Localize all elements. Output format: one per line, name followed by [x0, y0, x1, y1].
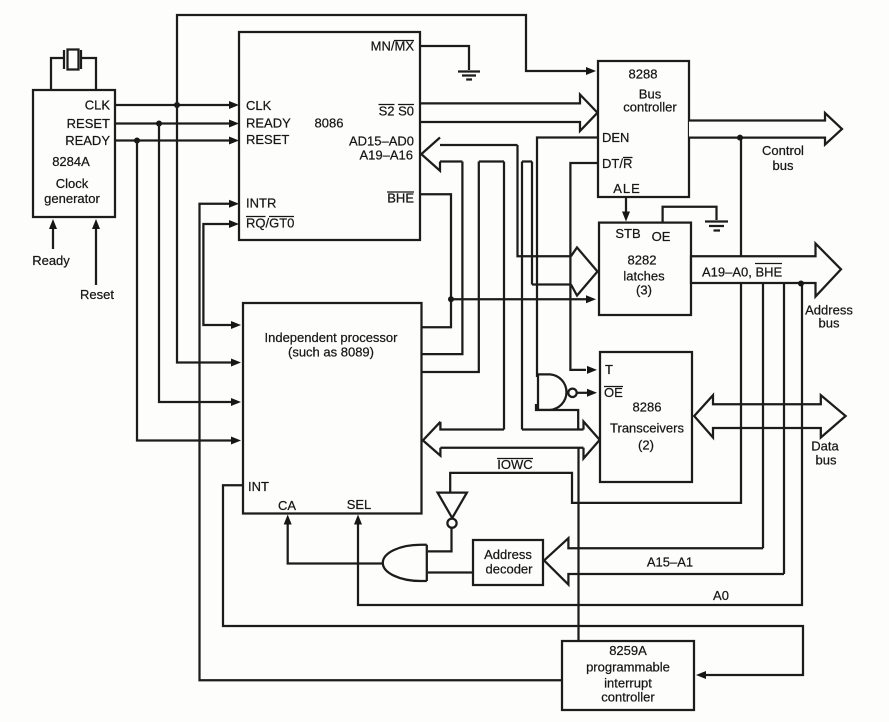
svg-text:STB: STB: [615, 226, 640, 241]
arrow into processor pin2: [231, 398, 241, 406]
svg-text:Address: Address: [484, 547, 532, 562]
bus AD bottom line segments: [440, 160, 532, 162]
label 8086 pin READY: [246, 116, 291, 131]
label 8282 pin STB: [615, 226, 640, 241]
node RESET junction: [156, 121, 162, 127]
label decoder: [486, 562, 534, 577]
inverter G3: [438, 493, 467, 528]
arrow into processor RQ/GT: [231, 321, 241, 329]
label Clock: [56, 176, 89, 191]
svg-text:Reset: Reset: [80, 287, 114, 302]
wire BHE to 8282: [451, 298, 586, 300]
label A15-A1: [647, 555, 693, 570]
clock generator U1 8284A box: [33, 90, 115, 217]
svg-text:IOWC: IOWC: [497, 457, 532, 472]
label controller: [623, 100, 677, 115]
svg-text:OE: OE: [652, 229, 671, 244]
wire Ready input stub: [52, 228, 54, 249]
wire IOWC from control bus to inverter: [450, 138, 741, 503]
svg-text:DEN: DEN: [602, 130, 629, 145]
address decoder U7 box: [473, 540, 543, 585]
svg-text:A15–A1: A15–A1: [647, 555, 693, 570]
label 8288 pin DT/R: [602, 156, 633, 171]
arrow into 8086 RESET: [229, 137, 239, 145]
label 8086: [315, 116, 344, 131]
label 8282 pin OE: [652, 229, 671, 244]
wire CLK 8284A to 8086: [115, 104, 231, 106]
label 8284A: [52, 154, 90, 169]
wire READY drop to processor: [137, 141, 233, 441]
label 8086 pin INTR: [246, 196, 276, 211]
svg-text:Clock: Clock: [56, 176, 89, 191]
independent processor U3 8089 box: [243, 303, 422, 514]
svg-text:8284A: 8284A: [52, 154, 90, 169]
crystal Y1: [51, 50, 96, 91]
label (3): [636, 283, 652, 298]
svg-text:READY: READY: [65, 133, 110, 148]
bus data double arrow: [694, 395, 845, 437]
label latches: [623, 269, 665, 284]
wire BHE loop 8086 to processor: [420, 194, 451, 327]
bus corridor arrow into 8286: [584, 422, 600, 459]
interrupt controller U8 8259A box: [562, 641, 694, 710]
label such as 8089: [288, 345, 374, 360]
label 8086 pin AD15-AD0: [349, 134, 414, 149]
label 8286 pin T: [605, 362, 613, 377]
label 8086 pin MN/MX: [371, 39, 415, 54]
label Data bus: [811, 439, 839, 454]
label 8286: [633, 400, 662, 415]
node control bus junction: [737, 135, 743, 141]
bus controller U4 8288 box: [598, 61, 689, 197]
svg-text:latches: latches: [623, 269, 665, 284]
wire Reset input stub: [95, 228, 97, 285]
wire SEL to A0 line: [358, 284, 802, 605]
svg-text:S2 S0: S2 S0: [379, 104, 414, 119]
svg-text:controller: controller: [623, 100, 677, 115]
label generator: [44, 191, 100, 206]
label 8086 pin CLK: [246, 98, 272, 113]
label 8086 pin A19-A16: [360, 148, 414, 163]
label A19-A0 BHE: [702, 264, 783, 280]
wire DT/R to 8286 T: [570, 163, 598, 370]
svg-text:CA: CA: [278, 498, 296, 513]
arrow into 8286 T: [587, 366, 597, 374]
label 8086 pin BHE: [387, 191, 414, 206]
svg-text:bus: bus: [819, 316, 840, 331]
ground for MN/MX: [458, 72, 480, 80]
svg-text:8259A: 8259A: [609, 643, 647, 658]
svg-text:READY: READY: [246, 116, 291, 131]
svg-text:A0: A0: [713, 588, 729, 603]
label processor pin CA: [278, 498, 296, 513]
node A0 junction on address bus: [798, 281, 804, 287]
label 8288 pin DEN: [602, 130, 629, 145]
wire address bus tap A15-A1 upper: [762, 283, 764, 548]
label processor pin SEL: [347, 497, 372, 512]
label 8086 pin RESET: [246, 132, 289, 147]
bus A15-A1 arrow into decoder: [544, 538, 784, 584]
wire READY 8284A to 8086: [115, 139, 231, 141]
bus branch down to transceiver corridor: [504, 162, 522, 430]
label Transceivers: [610, 421, 684, 436]
svg-text:decoder: decoder: [486, 562, 534, 577]
label 8282: [628, 253, 657, 268]
svg-text:CLK: CLK: [246, 98, 272, 113]
svg-text:INT: INT: [248, 479, 269, 494]
svg-text:ALE: ALE: [613, 181, 641, 196]
wire address bus tap A15-A1 lower: [783, 283, 785, 574]
bus branch into processor: [422, 162, 479, 373]
label 8288 pin ALE: [613, 181, 641, 196]
svg-text:RESET: RESET: [67, 116, 110, 131]
svg-text:Transceivers: Transceivers: [610, 421, 684, 436]
svg-text:8282: 8282: [628, 253, 657, 268]
label 8286 pin OE: [604, 385, 623, 400]
svg-text:generator: generator: [44, 191, 100, 206]
svg-text:OE: OE: [604, 385, 623, 400]
svg-text:bus: bus: [773, 158, 794, 173]
wire RQ/GT0 8086 to processor: [203, 224, 233, 325]
svg-text:RESET: RESET: [246, 132, 289, 147]
arrow up Reset: [92, 219, 100, 229]
svg-text:programmable: programmable: [586, 660, 670, 675]
CPU U2 8086 box: [239, 32, 420, 240]
node BHE junction: [448, 296, 454, 302]
bus AD15-AD0 arrow into 8086: [421, 138, 517, 171]
label Control bus: [762, 143, 804, 158]
svg-text:Ready: Ready: [32, 253, 70, 268]
bus address arrow: [691, 244, 841, 297]
svg-text:BHE: BHE: [387, 191, 414, 206]
arrow into 8086 CLK: [229, 101, 239, 109]
wire RESET drop to processor: [159, 124, 233, 403]
svg-text:DT/R: DT/R: [602, 156, 632, 171]
label Reset: [80, 287, 114, 302]
label controller 8259A: [601, 690, 655, 705]
wire DEN to NAND: [537, 138, 598, 378]
svg-text:bus: bus: [816, 453, 837, 468]
label interrupt: [604, 676, 652, 691]
wire 8259A to local bus: [577, 448, 579, 641]
label 8288: [629, 67, 658, 82]
label processor pin INT: [248, 479, 269, 494]
svg-text:Control: Control: [762, 143, 804, 158]
arrow up into CA: [284, 515, 292, 525]
wire CLK over-the-top to 8288: [177, 15, 586, 105]
label 8284A pin RESET: [67, 116, 110, 131]
arrow into 8259A right edge: [696, 671, 706, 679]
label 8284A pin READY: [65, 133, 110, 148]
arrow up into SEL: [354, 515, 362, 525]
label IOWC: [497, 457, 533, 472]
label Bus: [639, 87, 662, 102]
svg-text:(3): (3): [636, 283, 652, 298]
label Data bus 2: [816, 453, 837, 468]
label Address decoder: [484, 547, 532, 562]
arrow into 8086 INTR: [229, 200, 239, 208]
wire 8282 OE to ground: [663, 207, 717, 223]
label Address bus 2: [819, 316, 840, 331]
wire INT loop processor to 8259A: [223, 485, 803, 675]
label Control bus 2: [773, 158, 794, 173]
svg-text:(such as 8089): (such as 8089): [288, 345, 374, 360]
label 8284A pin CLK: [85, 98, 111, 113]
svg-text:8288: 8288: [629, 67, 658, 82]
NAND gate G1: [538, 374, 577, 410]
bus control arrow: [689, 113, 842, 145]
label Ready: [32, 253, 70, 268]
label 8086 pin S2 S0: [379, 104, 415, 119]
bus AD comb top branch to 8282: [518, 145, 598, 296]
arrow into processor pin3: [231, 437, 241, 445]
arrow into 8288 CLK: [586, 67, 596, 75]
ground for 8282 OE: [705, 222, 728, 231]
label 8259A: [609, 643, 647, 658]
arrow into 8286 OE: [587, 389, 597, 397]
wire CLK drop to processor: [177, 105, 233, 363]
arrow into 8086 READY: [229, 120, 239, 128]
bus S2 S0 to 8288 with open arrow: [420, 95, 598, 132]
wire AND output to CA: [288, 520, 382, 564]
label Address bus: [805, 303, 853, 318]
svg-text:controller: controller: [601, 690, 655, 705]
svg-text:INTR: INTR: [246, 196, 276, 211]
svg-text:T: T: [605, 362, 613, 377]
svg-text:interrupt: interrupt: [604, 676, 652, 691]
arrow into 8282 BHE: [586, 295, 596, 303]
svg-text:CLK: CLK: [85, 98, 111, 113]
latches U5 8282 box: [599, 223, 691, 315]
svg-text:RQ/GT0: RQ/GT0: [246, 216, 294, 231]
bus corridor bottom line: [440, 447, 583, 449]
wire ALE to 8282 STB: [625, 197, 627, 214]
small filled arrowheads: [49, 67, 706, 679]
svg-text:AD15–AD0: AD15–AD0: [349, 134, 414, 149]
node READY junction: [134, 138, 140, 144]
transceivers U6 8286 box: [600, 352, 692, 482]
svg-text:A19–A16: A19–A16: [360, 148, 414, 163]
node CLK junction: [174, 102, 180, 108]
wire INTR from 8259A: [200, 204, 563, 681]
wire NAND output to OE: [577, 392, 588, 394]
wire RESET 8284A to 8086: [115, 122, 231, 124]
arrow into processor pin1: [231, 359, 241, 367]
label 8086 pin RQ/GT0: [246, 216, 294, 231]
svg-text:A19–A0, BHE: A19–A0, BHE: [702, 265, 783, 280]
label Independent processor: [265, 330, 399, 345]
svg-text:SEL: SEL: [347, 497, 372, 512]
arrow into 8086 RQ/GT0: [229, 220, 239, 228]
label (2): [638, 438, 654, 453]
svg-text:8286: 8286: [633, 400, 662, 415]
svg-text:8086: 8086: [315, 116, 344, 131]
svg-text:Data: Data: [811, 439, 839, 454]
svg-text:Independent processor: Independent processor: [265, 330, 399, 345]
wire NAND lower input from bus: [536, 404, 578, 430]
label programmable: [586, 660, 670, 675]
svg-text:(2): (2): [638, 438, 654, 453]
arrow up Ready: [49, 219, 57, 229]
wire inverter output to AND input: [428, 528, 452, 551]
AND gate G2: [383, 545, 427, 581]
wire MN/MX to ground: [420, 46, 469, 70]
bus corridor processor to 8286 left arrow: [423, 422, 584, 456]
arrow down ALE into STB: [622, 212, 630, 222]
wire decoder output to AND input: [428, 571, 473, 573]
label A0: [713, 588, 729, 603]
